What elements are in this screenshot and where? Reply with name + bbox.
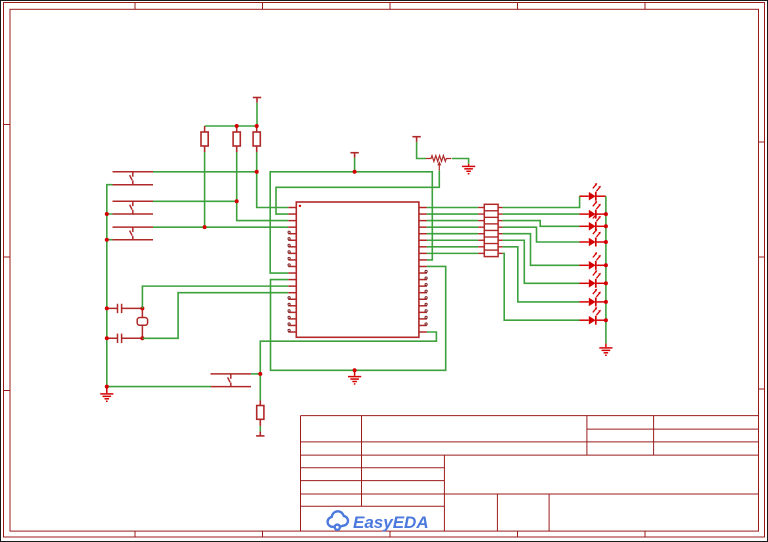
wire RN1 to LED8	[503, 253, 580, 320]
svg-text:EasyEDA: EasyEDA	[353, 513, 429, 532]
switch SW1	[113, 172, 154, 185]
resistor R5 bottom lead	[259, 419, 261, 426]
wire pot wiper to pin 2	[276, 171, 439, 214]
wire SW2 to R2 junction	[153, 200, 237, 202]
U1 left pins 1-20	[288, 208, 296, 333]
U1 pin-1 marker	[299, 205, 301, 207]
resistor network RN1	[484, 204, 498, 256]
LED LED5	[580, 252, 606, 270]
ground IC rail	[348, 370, 361, 384]
LED LED6	[580, 270, 606, 288]
wire switch common vertical	[107, 185, 113, 387]
power bar (below R5)	[256, 432, 264, 436]
wire SW3 line to pin 4	[153, 226, 288, 228]
junction R3 top	[255, 124, 259, 128]
wire RN1 to LED2	[503, 213, 580, 215]
junction switch ground	[105, 385, 109, 389]
junction SW2 common	[105, 212, 109, 216]
wire RN1 to LED1	[503, 196, 580, 207]
resistor R2	[233, 132, 240, 146]
wire R1 column to SW3 line	[204, 152, 206, 227]
junction SW3 common	[105, 238, 109, 242]
LED LED7	[580, 289, 606, 307]
wire SW1 to R3 junction	[153, 171, 257, 173]
switch SW2	[113, 201, 154, 214]
wire reset net	[260, 332, 436, 400]
U1 right unconnected pin marks	[425, 270, 427, 325]
wire pot right to ground	[452, 159, 469, 164]
resistor R3	[253, 132, 260, 146]
wire R2 column to pin 3	[237, 152, 289, 221]
LED LED8	[580, 307, 606, 325]
junction R2-SW2	[235, 199, 239, 203]
junction C1-Y1	[140, 306, 144, 310]
resistor R5 top lead	[259, 401, 261, 406]
wire LED cathode bus	[605, 196, 607, 343]
junction R2 top	[235, 124, 239, 128]
resistor R3 bottom lead	[256, 146, 258, 152]
wire RN1 to LED5	[503, 234, 580, 266]
wire ground rail pins 12/R10	[271, 266, 446, 370]
resistor R5	[257, 406, 264, 420]
junction VCC stem	[353, 170, 357, 174]
wire U1 pins to RN1	[427, 208, 478, 254]
wire VCC mid stem	[354, 158, 356, 172]
wire RN1 to LED4	[503, 227, 580, 242]
wire RN1 to LED3	[503, 221, 580, 227]
wire R5 bottom	[259, 426, 261, 432]
title block table	[301, 416, 759, 531]
junction ground rail	[353, 368, 357, 372]
switch SW4	[211, 374, 252, 387]
resistor R1	[201, 132, 208, 146]
crystal Y1	[137, 318, 147, 326]
EasyEDA logo	[328, 511, 348, 530]
wire R3 column to pin 1	[257, 152, 289, 208]
power flag VCC (top, above R3)	[253, 98, 261, 103]
ground pot	[462, 164, 475, 174]
U1 right pins 21-40	[419, 208, 427, 333]
power flag VCC (middle)	[350, 153, 358, 158]
wire RN1 to LED6	[503, 240, 580, 283]
wire XTAL1 to pin 13	[142, 286, 288, 308]
junctions LED cathode bus	[604, 212, 608, 322]
junction C1 gnd	[105, 306, 109, 310]
wire resistor top bus	[205, 125, 257, 127]
wire SW4 to reset junction	[251, 373, 260, 375]
LED LED3	[580, 213, 606, 231]
LED LED4	[580, 229, 606, 247]
U1 left unconnected pin marks	[288, 231, 290, 332]
wire VCC rail to IC pins	[270, 172, 432, 273]
resistor R2 bottom lead	[236, 146, 238, 152]
power flag VCC (potentiometer)	[412, 137, 420, 142]
LED LED1	[580, 183, 606, 201]
wire XTAL2 to pin 14	[142, 293, 288, 339]
resistor R1 bottom lead	[204, 146, 206, 152]
wire SW4 bottom to gnd rail	[107, 386, 211, 388]
wire RN1 to LED7	[503, 247, 580, 302]
junction C2 gnd	[105, 336, 109, 340]
ground switches	[100, 387, 113, 402]
capacitor C1	[107, 304, 143, 313]
potentiometer RP1	[426, 156, 451, 162]
op-amp U1 MCU body	[296, 202, 419, 337]
wire pot left	[417, 142, 426, 159]
junction SW4 reset	[258, 372, 262, 376]
capacitor C2	[107, 334, 143, 343]
wire VCC top stem	[256, 103, 258, 126]
resistor top leads	[205, 126, 257, 132]
junction R1-SW3	[203, 225, 207, 229]
junction C2-Y1	[140, 336, 144, 340]
ground LEDs	[599, 344, 612, 356]
LED LED2	[580, 201, 606, 219]
junction R3-SW1	[255, 170, 259, 174]
switch SW3	[113, 227, 154, 240]
